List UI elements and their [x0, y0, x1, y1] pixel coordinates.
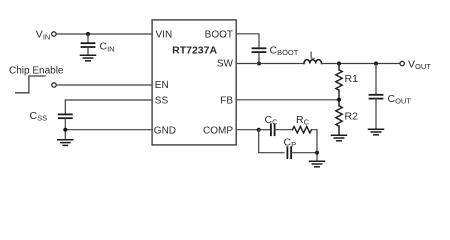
wire to comp ground — [316, 153, 318, 161]
svg-text:R2: R2 — [345, 110, 359, 122]
resistor RC — [293, 126, 312, 132]
svg-text:Chip Enable: Chip Enable — [9, 66, 64, 77]
wire SS down — [64, 100, 66, 114]
IC U1 RT7237A body — [152, 20, 236, 145]
svg-text:BOOT: BOOT — [205, 29, 233, 40]
capacitor CP — [287, 147, 291, 158]
wire FB horizontal — [236, 99, 339, 101]
wire CBOOT bottom — [258, 52, 260, 63]
svg-text:CSS: CSS — [30, 110, 48, 123]
node CIN junction — [86, 32, 90, 36]
wire GND horizontal — [65, 129, 152, 131]
capacitor COUT — [370, 95, 383, 99]
wire BOOT horizontal — [236, 34, 259, 48]
capacitor CSS — [59, 114, 72, 118]
svg-text:SS: SS — [155, 95, 169, 106]
node CBOOT SW junction — [257, 62, 261, 66]
capacitor CC — [271, 124, 275, 135]
resistor R1 — [336, 64, 342, 100]
terminal EN — [52, 83, 56, 87]
terminal VIN — [52, 32, 56, 36]
wire to CC — [259, 129, 271, 131]
svg-text:VOUT: VOUT — [408, 59, 431, 72]
chip enable step waveform — [16, 76, 45, 93]
wire RC to corner — [312, 130, 318, 153]
svg-text:SW: SW — [217, 58, 234, 69]
node R1 top junction — [337, 62, 341, 66]
svg-text:FB: FB — [220, 96, 233, 107]
wire SS horizontal — [65, 99, 152, 101]
node FB junction — [337, 98, 341, 102]
wire SW to inductor — [236, 63, 304, 65]
wire inductor to VOUT — [322, 63, 400, 65]
wire CC to RC — [275, 129, 293, 131]
ground comp network — [310, 161, 325, 167]
svg-text:CC: CC — [265, 114, 279, 127]
ground CSS — [58, 140, 73, 146]
svg-text:COMP: COMP — [203, 126, 233, 137]
wire CSS bottom — [64, 118, 66, 139]
wire COUT bottom — [375, 99, 377, 129]
svg-text:EN: EN — [155, 80, 169, 91]
svg-text:CP: CP — [284, 136, 297, 149]
wire CIN top — [87, 34, 89, 43]
wire VIN to pin — [57, 33, 152, 35]
wire CP branch left — [259, 130, 284, 153]
wire CIN bottom — [87, 47, 89, 55]
node COMP junction — [257, 128, 261, 132]
capacitor CIN — [82, 43, 95, 47]
svg-text:VIN: VIN — [156, 29, 173, 40]
wire COMP to junction — [236, 129, 259, 131]
ground CIN — [81, 55, 96, 61]
inductor L — [304, 60, 322, 64]
svg-text:COUT: COUT — [388, 93, 412, 106]
node CSS GND junction — [63, 128, 67, 132]
resistor R2 — [336, 100, 342, 135]
svg-text:RC: RC — [296, 114, 310, 127]
svg-text:VIN: VIN — [36, 29, 51, 42]
svg-text:GND: GND — [154, 126, 176, 137]
svg-text:CIN: CIN — [100, 41, 115, 54]
terminal VOUT — [400, 61, 404, 65]
node comp ground junction — [315, 151, 319, 155]
node COUT junction — [374, 62, 378, 66]
ground R2 — [332, 135, 347, 141]
svg-text:RT7237A: RT7237A — [172, 44, 217, 56]
ground COUT — [369, 129, 384, 135]
wire CP to corner — [291, 152, 317, 154]
svg-text:R1: R1 — [345, 73, 359, 85]
wire EN to pin — [57, 84, 152, 86]
svg-text:CBOOT: CBOOT — [270, 44, 299, 57]
wire COUT top — [375, 64, 377, 95]
svg-text:L: L — [310, 49, 316, 61]
capacitor CBOOT — [253, 48, 266, 52]
